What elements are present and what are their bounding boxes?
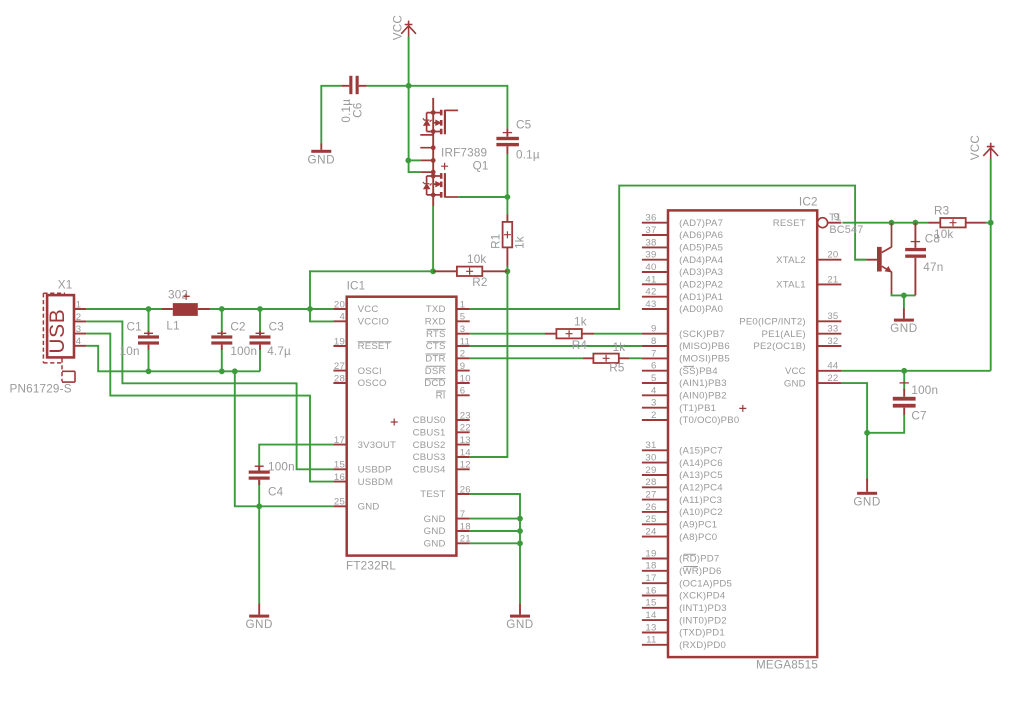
svg-text:VCC: VCC bbox=[969, 135, 982, 160]
svg-text:CBUS0: CBUS0 bbox=[413, 415, 446, 426]
svg-text:9: 9 bbox=[834, 211, 840, 223]
svg-text:(MOSI)PB5: (MOSI)PB5 bbox=[679, 354, 730, 365]
svg-text:USBDM: USBDM bbox=[358, 477, 394, 488]
svg-text:MEGA8515: MEGA8515 bbox=[756, 658, 818, 671]
svg-text:16: 16 bbox=[645, 585, 656, 596]
wire C4 bottom to GND net bbox=[258, 480, 260, 507]
svg-text:28: 28 bbox=[645, 477, 656, 488]
svg-text:CBUS4: CBUS4 bbox=[413, 465, 446, 476]
svg-text:25: 25 bbox=[645, 514, 656, 525]
wire GND drop to IC1 pin25 bbox=[235, 370, 334, 506]
svg-text:DSR: DSR bbox=[425, 366, 446, 377]
wire VCC right stem bbox=[990, 158, 992, 370]
wire TEST to GND drop bbox=[470, 494, 520, 604]
svg-text:OSCO: OSCO bbox=[358, 378, 387, 389]
ground symbol GND1 (C6) bbox=[311, 144, 331, 153]
node N16 C5 bottom / R1 top (junction) bbox=[505, 194, 511, 200]
wire C4 GND tail bbox=[258, 506, 260, 604]
X1 pin numbers 1-4 bbox=[76, 299, 82, 347]
svg-text:37: 37 bbox=[645, 225, 656, 236]
wire DTR to R5 bbox=[470, 357, 583, 359]
svg-text:GND: GND bbox=[424, 514, 446, 525]
svg-text:PE2(OC1B): PE2(OC1B) bbox=[753, 341, 805, 352]
svg-text:17: 17 bbox=[334, 435, 345, 446]
svg-text:C5: C5 bbox=[516, 119, 532, 132]
node N9 GND7 (junction) bbox=[517, 516, 523, 522]
wire T1 emitter net bbox=[892, 293, 916, 295]
svg-text:20: 20 bbox=[334, 299, 345, 310]
svg-text:R2: R2 bbox=[472, 276, 487, 289]
IC2 left pin numbers bbox=[645, 213, 657, 646]
IC2 left pin name overlines (SS, RD, WR) bbox=[684, 366, 699, 566]
svg-text:15: 15 bbox=[334, 460, 345, 471]
svg-text:27: 27 bbox=[645, 490, 656, 501]
svg-text:10k: 10k bbox=[467, 253, 486, 266]
svg-text:GND: GND bbox=[245, 618, 272, 631]
resistor R2 10k bbox=[457, 267, 482, 276]
svg-text:RXD: RXD bbox=[425, 317, 446, 328]
svg-text:7: 7 bbox=[651, 348, 657, 359]
svg-text:C7: C7 bbox=[911, 410, 926, 423]
svg-text:6: 6 bbox=[460, 386, 466, 397]
svg-text:GND: GND bbox=[784, 378, 806, 389]
svg-text:10k: 10k bbox=[934, 228, 953, 241]
svg-text:4.7µ: 4.7µ bbox=[267, 345, 291, 358]
wire Q1 lower right lead to C5 node bbox=[458, 196, 507, 198]
svg-text:IRF7389: IRF7389 bbox=[441, 147, 487, 160]
svg-text:2: 2 bbox=[460, 349, 466, 360]
svg-text:CBUS2: CBUS2 bbox=[413, 440, 446, 451]
svg-text:1k: 1k bbox=[513, 236, 526, 249]
node N14 R2 left (junction) bbox=[430, 268, 436, 274]
svg-text:10: 10 bbox=[460, 373, 471, 384]
capacitor C2 100n bbox=[211, 331, 232, 350]
IC2 RESET inverting bubble bbox=[818, 218, 828, 228]
capacitor C1 10n bbox=[138, 331, 159, 350]
IC IC2 MEGA8515 body bbox=[668, 210, 817, 657]
wire C6 left to GND bbox=[321, 86, 341, 144]
node N22 T1 emitter GND (junction) bbox=[901, 293, 907, 299]
node N17 T1 collector / RESET (junction) bbox=[889, 220, 895, 226]
svg-text:IC2: IC2 bbox=[799, 196, 818, 209]
node N21 C7 bottom / GND22 (junction) bbox=[864, 430, 870, 436]
svg-text:(A15)PC7: (A15)PC7 bbox=[679, 446, 723, 457]
resistor R4 1k bbox=[556, 329, 581, 338]
svg-text:19: 19 bbox=[645, 548, 656, 559]
svg-text:(AD3)PA3: (AD3)PA3 bbox=[679, 267, 723, 278]
svg-text:36: 36 bbox=[645, 213, 656, 224]
svg-text:(A12)PC4: (A12)PC4 bbox=[679, 482, 723, 493]
svg-text:GND: GND bbox=[308, 153, 335, 166]
VCC supply symbol (right) bbox=[983, 143, 998, 159]
svg-text:22: 22 bbox=[460, 423, 471, 434]
wire C7 bottom lead bbox=[867, 414, 904, 433]
IC1 left pin names bbox=[358, 304, 397, 512]
node N15 R2 right / R1 (junction) bbox=[505, 268, 511, 274]
wire IC1 GND21 link bbox=[470, 542, 520, 544]
svg-text:(AD5)PA5: (AD5)PA5 bbox=[679, 243, 723, 254]
svg-text:35: 35 bbox=[827, 311, 838, 322]
svg-text:USB: USB bbox=[46, 309, 69, 354]
svg-text:18: 18 bbox=[645, 561, 656, 572]
wire C7 top lead bbox=[903, 371, 905, 390]
svg-text:1k: 1k bbox=[574, 316, 587, 329]
svg-text:RTS: RTS bbox=[426, 329, 446, 340]
svg-text:19: 19 bbox=[334, 336, 345, 347]
wire Q1 gate hook lower bbox=[409, 160, 421, 173]
IC2 left pin names bbox=[679, 218, 739, 651]
svg-text:41: 41 bbox=[645, 274, 656, 285]
svg-text:1: 1 bbox=[76, 299, 82, 310]
svg-text:27: 27 bbox=[334, 361, 345, 372]
svg-text:21: 21 bbox=[827, 274, 838, 285]
wire T1 GND drop bbox=[903, 295, 905, 309]
node N20 C7 top / VCC44 (junction) bbox=[901, 368, 907, 374]
svg-text:47n: 47n bbox=[923, 261, 943, 274]
wire L1 to IC1 VCC rail bbox=[210, 308, 334, 310]
svg-text:100n: 100n bbox=[268, 460, 295, 473]
svg-text:14: 14 bbox=[460, 447, 472, 458]
svg-text:C2: C2 bbox=[230, 321, 245, 334]
svg-text:C6: C6 bbox=[351, 103, 364, 118]
node N13 Q1 gate node (junction) bbox=[405, 158, 411, 164]
svg-text:R3: R3 bbox=[934, 204, 949, 217]
IC1 right pin numbers bbox=[460, 299, 472, 544]
svg-text:GND: GND bbox=[890, 322, 917, 335]
svg-text:(A11)PC3: (A11)PC3 bbox=[679, 495, 722, 506]
svg-text:(AD4)PA4: (AD4)PA4 bbox=[679, 255, 724, 266]
svg-text:(A9)PC1: (A9)PC1 bbox=[679, 519, 717, 530]
svg-text:(RD)PD7: (RD)PD7 bbox=[679, 554, 719, 565]
IC2 right pin numbers bbox=[827, 250, 839, 384]
wire C5 bottom bbox=[506, 154, 508, 197]
svg-text:13: 13 bbox=[645, 622, 656, 633]
svg-text:R5: R5 bbox=[609, 361, 625, 374]
svg-text:25: 25 bbox=[334, 497, 345, 508]
svg-text:13: 13 bbox=[460, 435, 471, 446]
svg-text:GND: GND bbox=[358, 502, 380, 513]
svg-text:L1: L1 bbox=[166, 320, 179, 333]
svg-text:43: 43 bbox=[645, 299, 656, 310]
wire R2 row horizontal bbox=[309, 270, 433, 272]
svg-text:RESET: RESET bbox=[358, 341, 391, 352]
wire C2 bottom to GND rail bbox=[221, 350, 223, 372]
svg-text:(A8)PC0: (A8)PC0 bbox=[679, 532, 717, 543]
Q1 origin cross bbox=[441, 163, 448, 170]
IC IC1 FT232RL body bbox=[347, 297, 457, 556]
capacitor C5 0.1u bbox=[496, 128, 519, 154]
wire CBUS3 riser bbox=[470, 270, 508, 457]
svg-text:X1: X1 bbox=[58, 278, 73, 291]
ground symbol GND5 (C7) bbox=[857, 479, 877, 495]
IC2 origin cross bbox=[739, 405, 746, 412]
node N11 GND21 (junction) bbox=[517, 540, 523, 546]
svg-text:3: 3 bbox=[460, 324, 466, 335]
svg-text:C3: C3 bbox=[269, 321, 284, 334]
svg-text:40: 40 bbox=[645, 262, 656, 273]
svg-text:(T0/OC0)PB0: (T0/OC0)PB0 bbox=[679, 415, 739, 426]
svg-text:24: 24 bbox=[645, 527, 657, 538]
wire T1 base wire bbox=[854, 259, 866, 261]
svg-text:PE1(ALE): PE1(ALE) bbox=[762, 329, 806, 340]
svg-text:(INT1)PD3: (INT1)PD3 bbox=[679, 603, 727, 614]
svg-text:PE0(ICP/INT2): PE0(ICP/INT2) bbox=[739, 317, 806, 328]
node N1 C1/rail (junction) bbox=[146, 306, 152, 312]
svg-text:39: 39 bbox=[645, 250, 656, 261]
resistor R5 1k bbox=[593, 354, 618, 363]
wire C2 top lead drop bbox=[221, 309, 223, 331]
wire R4 to PB7 bbox=[594, 333, 642, 335]
wire CTS to PB6 bbox=[470, 345, 642, 347]
IC1 right pin name overlines bbox=[425, 329, 446, 391]
svg-text:3: 3 bbox=[651, 398, 657, 409]
ground symbol GND3 (IC1) bbox=[510, 604, 530, 618]
transistor Q1 IRF7389 dual MOSFET bbox=[420, 98, 458, 206]
svg-text:4: 4 bbox=[76, 336, 82, 347]
connector X1 USB PN61729-S bbox=[43, 293, 86, 382]
IC2 left pin stubs (ports PA PB PC PD) bbox=[642, 223, 668, 645]
node N5 C1/gnd-rail (junction) bbox=[146, 368, 152, 374]
svg-text:11: 11 bbox=[460, 336, 470, 347]
wire IC2 VCC pin44 rail bbox=[841, 370, 990, 372]
resistor R5 leads bbox=[583, 357, 629, 359]
svg-text:11: 11 bbox=[646, 635, 656, 646]
svg-text:(A10)PC2: (A10)PC2 bbox=[679, 507, 723, 518]
capacitor C4 100n bbox=[249, 466, 270, 485]
resistor R2 leads bbox=[433, 270, 507, 272]
svg-text:32: 32 bbox=[827, 336, 838, 347]
node N10 GND18 (junction) bbox=[517, 528, 523, 534]
resistor R3 10k bbox=[940, 218, 965, 227]
svg-text:17: 17 bbox=[645, 573, 656, 584]
svg-text:9: 9 bbox=[651, 324, 657, 335]
svg-text:GND: GND bbox=[424, 526, 446, 537]
node N2 C2/rail (junction) bbox=[219, 306, 225, 312]
wire USB pin2 to USBDP bbox=[86, 321, 333, 469]
svg-text:6: 6 bbox=[651, 361, 657, 372]
svg-text:7: 7 bbox=[460, 509, 466, 520]
node N19 R3 / VCC stem (junction) bbox=[988, 220, 994, 226]
VCC supply symbol (left) bbox=[401, 21, 416, 37]
svg-text:GND: GND bbox=[853, 495, 880, 508]
svg-text:(MISO)PB6: (MISO)PB6 bbox=[679, 341, 730, 352]
wire USB pin1 to L1 bbox=[86, 308, 162, 310]
wire R1 bottom to node bbox=[506, 266, 508, 272]
svg-text:38: 38 bbox=[645, 237, 656, 248]
svg-text:DTR: DTR bbox=[425, 354, 445, 365]
wire R1 top lead bbox=[506, 196, 508, 214]
svg-text:PN61729-S: PN61729-S bbox=[10, 383, 72, 396]
svg-text:23: 23 bbox=[460, 410, 471, 421]
transistor T1 BC547 bbox=[866, 223, 892, 294]
svg-text:C1: C1 bbox=[127, 321, 142, 334]
ground symbol GND2 (C4) bbox=[249, 604, 269, 618]
IC1 origin cross bbox=[391, 419, 398, 426]
svg-text:IC1: IC1 bbox=[347, 280, 366, 293]
wire Q1 drain to R2 node bbox=[432, 206, 434, 271]
svg-text:20: 20 bbox=[827, 250, 838, 261]
svg-text:VCC: VCC bbox=[785, 366, 806, 377]
svg-text:100n: 100n bbox=[230, 345, 257, 358]
svg-text:100n: 100n bbox=[911, 384, 938, 397]
ground symbol GND4 (T1) bbox=[894, 309, 914, 322]
wire C1 bottom to GND rail bbox=[148, 350, 150, 372]
resistor R4 leads bbox=[545, 333, 594, 335]
svg-text:(AIN0)PB2: (AIN0)PB2 bbox=[679, 391, 727, 402]
svg-text:15: 15 bbox=[645, 598, 656, 609]
wire VCC top rail to C5 bbox=[408, 86, 508, 129]
svg-text:(A14)PC6: (A14)PC6 bbox=[679, 458, 723, 469]
svg-text:1k: 1k bbox=[613, 341, 626, 354]
svg-text:26: 26 bbox=[645, 502, 656, 513]
svg-text:30: 30 bbox=[645, 453, 656, 464]
svg-text:XTAL2: XTAL2 bbox=[776, 255, 806, 266]
IC2 right pin names bbox=[739, 218, 806, 389]
svg-text:RI: RI bbox=[436, 391, 446, 402]
wire R3 to VCC stem bbox=[985, 222, 991, 224]
svg-text:(WR)PD6: (WR)PD6 bbox=[679, 566, 721, 577]
svg-text:26: 26 bbox=[460, 484, 471, 495]
resistor R1 1k (vertical) bbox=[503, 215, 513, 267]
svg-text:4: 4 bbox=[339, 312, 345, 323]
IC1 right pin names bbox=[413, 304, 446, 549]
node N4 IC1 VCC corner (junction) bbox=[307, 306, 313, 312]
svg-text:CBUS1: CBUS1 bbox=[413, 428, 446, 439]
svg-text:GND: GND bbox=[506, 618, 533, 631]
svg-text:RESET: RESET bbox=[773, 218, 806, 229]
svg-text:16: 16 bbox=[334, 472, 345, 483]
svg-text:(AIN1)PB3: (AIN1)PB3 bbox=[679, 378, 727, 389]
svg-text:(T1)PB1: (T1)PB1 bbox=[679, 403, 716, 414]
svg-text:(INT0)PD2: (INT0)PD2 bbox=[679, 615, 727, 626]
svg-text:(XCK)PD4: (XCK)PD4 bbox=[679, 591, 726, 602]
wire USB pin4 to GND rail bbox=[86, 346, 98, 372]
node N18 C8 top / RESET (junction) bbox=[913, 220, 919, 226]
svg-text:(AD6)PA6: (AD6)PA6 bbox=[679, 230, 723, 241]
svg-text:(AD1)PA1: (AD1)PA1 bbox=[679, 292, 723, 303]
node N3 C3/rail (junction) bbox=[257, 306, 263, 312]
svg-text:12: 12 bbox=[460, 460, 471, 471]
svg-text:10n: 10n bbox=[120, 345, 140, 358]
node N12 VCC rail (junction) bbox=[406, 83, 412, 89]
capacitor C3 4.7µ bbox=[250, 331, 271, 350]
svg-text:28: 28 bbox=[334, 373, 345, 384]
svg-text:OSCI: OSCI bbox=[358, 366, 382, 377]
svg-text:(OC1A)PD5: (OC1A)PD5 bbox=[679, 578, 732, 589]
resistor R3 leads bbox=[929, 222, 986, 224]
capacitor C7 100n bbox=[893, 383, 916, 415]
wire GND rail under C1-C3 bbox=[97, 370, 260, 372]
wire C6 right to VCC rail bbox=[367, 85, 409, 87]
svg-text:GND: GND bbox=[424, 539, 446, 550]
svg-text:C4: C4 bbox=[268, 485, 284, 498]
wire IC2 GND pin22 drop bbox=[841, 383, 867, 481]
svg-text:TXD: TXD bbox=[426, 304, 446, 315]
IC1 left pin stubs (pins 20,4,19,27,28,17,15,16,25) bbox=[333, 309, 346, 506]
svg-text:5: 5 bbox=[651, 373, 657, 384]
IC1 left pin name overlines bbox=[358, 341, 392, 343]
node N6 C2/gnd-rail (junction) bbox=[219, 368, 225, 374]
svg-text:VCCIO: VCCIO bbox=[358, 317, 389, 328]
svg-text:8: 8 bbox=[651, 336, 657, 347]
svg-text:BC547: BC547 bbox=[829, 224, 863, 236]
svg-text:18: 18 bbox=[460, 521, 471, 532]
wire 3V3OUT to C4 top bbox=[259, 445, 333, 471]
svg-text:VCC: VCC bbox=[358, 304, 379, 315]
svg-text:USBDP: USBDP bbox=[358, 465, 392, 476]
svg-text:42: 42 bbox=[645, 287, 656, 298]
svg-text:VCC: VCC bbox=[392, 15, 405, 40]
wire RESET row to R3 bbox=[842, 222, 928, 224]
svg-text:R4: R4 bbox=[572, 339, 588, 352]
inductor L1 bbox=[162, 293, 210, 316]
svg-text:2: 2 bbox=[651, 410, 657, 421]
svg-text:29: 29 bbox=[645, 465, 656, 476]
svg-text:22: 22 bbox=[827, 373, 838, 384]
svg-text:(SS)PB4: (SS)PB4 bbox=[679, 366, 718, 377]
node N7 gnd-rail drop (junction) bbox=[232, 368, 238, 374]
svg-text:FT232RL: FT232RL bbox=[346, 560, 396, 573]
svg-text:31: 31 bbox=[645, 440, 656, 451]
IC1 right pin stubs (pins 1,5,3,11,2,9,10,6,23,22,13,14,12,26,7,18,21) bbox=[456, 309, 469, 543]
svg-text:21: 21 bbox=[460, 534, 471, 545]
svg-text:14: 14 bbox=[645, 610, 657, 621]
svg-text:5: 5 bbox=[460, 312, 466, 323]
wire RTS to R4 bbox=[470, 333, 545, 335]
wire R5 to PB5 bbox=[629, 357, 642, 359]
svg-text:DCD: DCD bbox=[424, 378, 445, 389]
node N8 C4 bottom (junction) bbox=[256, 503, 262, 509]
IC1 left pin numbers bbox=[334, 299, 346, 507]
capacitor C6 0.1u bbox=[341, 76, 366, 94]
svg-text:CBUS3: CBUS3 bbox=[413, 452, 446, 463]
wire USB pin3 to USBDM bbox=[86, 334, 333, 482]
svg-text:(A13)PC5: (A13)PC5 bbox=[679, 470, 723, 481]
svg-text:1: 1 bbox=[460, 299, 466, 310]
wire TXD to T1 base run bbox=[470, 186, 867, 309]
svg-text:302: 302 bbox=[168, 288, 188, 301]
svg-text:(AD2)PA2: (AD2)PA2 bbox=[679, 280, 723, 291]
svg-text:2: 2 bbox=[76, 312, 82, 323]
wire C3 bottom to GND rail bbox=[259, 350, 261, 372]
svg-text:4: 4 bbox=[651, 385, 657, 396]
wire VCC stem down to Q1 gate node bbox=[408, 37, 410, 161]
svg-text:9: 9 bbox=[460, 361, 466, 372]
svg-text:33: 33 bbox=[827, 324, 838, 335]
svg-text:(AD7)PA7: (AD7)PA7 bbox=[679, 218, 723, 229]
svg-text:Q1: Q1 bbox=[473, 160, 489, 173]
wire Q1 gate hook upper bbox=[408, 159, 421, 161]
wire VCCIO hook bbox=[310, 308, 333, 321]
svg-text:3V3OUT: 3V3OUT bbox=[358, 440, 397, 451]
capacitor C8 47n bbox=[905, 223, 926, 296]
Q1 pin joint dots bbox=[431, 110, 436, 197]
svg-text:(RXD)PD0: (RXD)PD0 bbox=[679, 640, 726, 651]
svg-text:R1: R1 bbox=[489, 234, 502, 249]
svg-text:XTAL1: XTAL1 bbox=[776, 280, 806, 291]
wire IC1 GND7 link bbox=[470, 518, 520, 520]
IC2 right pin stubs bbox=[817, 223, 841, 383]
wire C1 top lead drop bbox=[148, 309, 150, 331]
svg-text:44: 44 bbox=[827, 361, 839, 372]
svg-text:0.1µ: 0.1µ bbox=[516, 149, 540, 162]
svg-text:CTS: CTS bbox=[426, 341, 446, 352]
wire VCC riser to R2 row bbox=[309, 270, 311, 309]
wire C3 top lead drop bbox=[259, 309, 261, 331]
svg-text:(TXD)PD1: (TXD)PD1 bbox=[679, 628, 725, 639]
svg-text:3: 3 bbox=[76, 324, 82, 335]
wire IC1 GND18 link bbox=[470, 530, 520, 532]
